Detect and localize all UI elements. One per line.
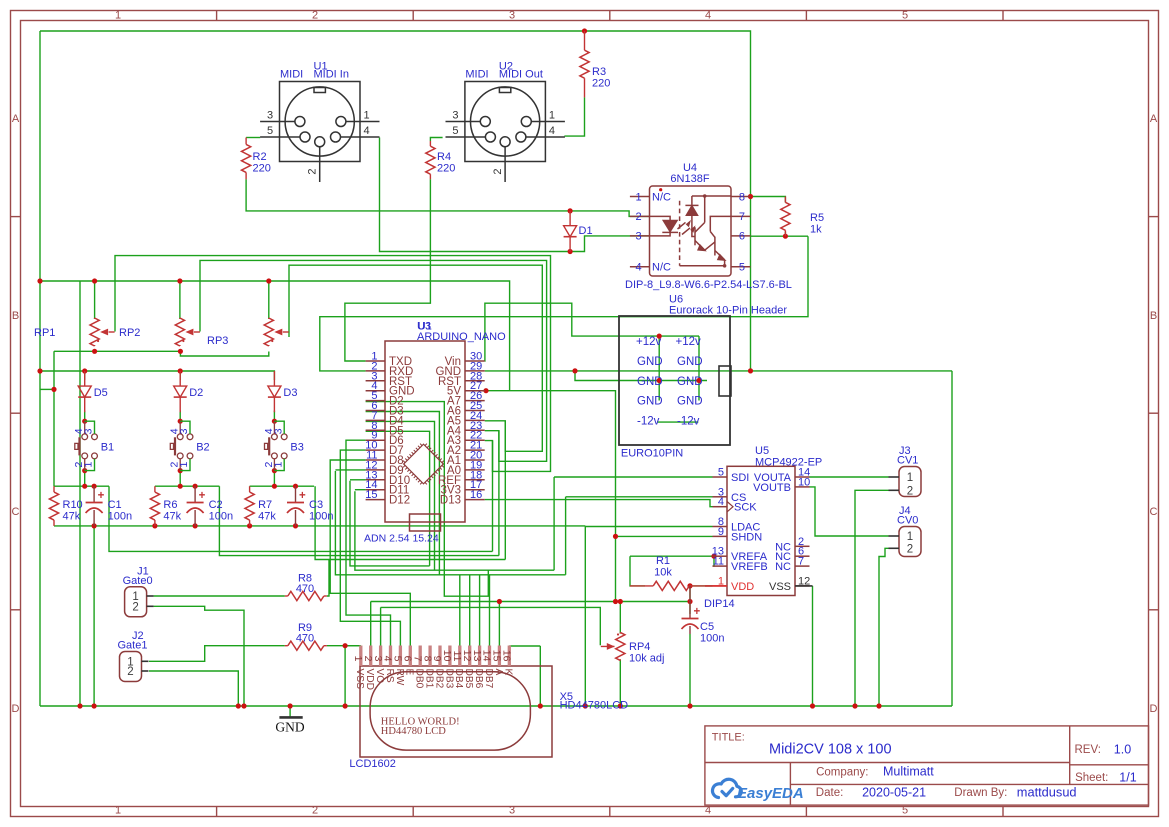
svg-text:MCP4922-EP: MCP4922-EP	[755, 457, 822, 469]
junction	[193, 523, 198, 528]
junction	[783, 234, 788, 239]
button B2	[170, 421, 193, 470]
svg-text:4: 4	[635, 262, 641, 274]
svg-text:Multimatt: Multimatt	[883, 764, 934, 778]
svg-text:B: B	[12, 310, 19, 322]
svg-text:47k: 47k	[258, 511, 276, 523]
junction	[247, 523, 252, 528]
resistor R9 470	[285, 645, 288, 647]
svg-text:11: 11	[713, 556, 724, 568]
junction	[51, 387, 56, 392]
button B1	[75, 421, 98, 470]
wire	[344, 646, 346, 706]
wire	[370, 602, 372, 646]
svg-text:8: 8	[739, 191, 745, 203]
junction	[497, 599, 502, 604]
svg-text:1: 1	[549, 110, 555, 122]
wire	[380, 138, 571, 252]
svg-text:Gate0: Gate0	[123, 575, 153, 587]
wire	[498, 602, 500, 646]
svg-text:Company:: Company:	[816, 766, 868, 778]
junction	[37, 368, 42, 373]
wire	[430, 138, 442, 142]
svg-text:ADN 2.54 15.24: ADN 2.54 15.24	[364, 533, 439, 545]
svg-text:C1: C1	[108, 499, 122, 511]
wire	[289, 706, 291, 717]
junction	[178, 368, 183, 373]
svg-text:C: C	[1150, 506, 1158, 518]
svg-text:7: 7	[739, 211, 745, 223]
wire	[554, 476, 712, 478]
wire	[335, 469, 365, 471]
svg-text:+: +	[694, 606, 701, 618]
svg-text:4: 4	[363, 125, 369, 137]
wire	[350, 481, 430, 566]
svg-text:NC: NC	[775, 561, 791, 573]
wire	[751, 235, 809, 237]
svg-text:5: 5	[718, 467, 724, 479]
svg-text:EURO10PIN: EURO10PIN	[621, 447, 683, 459]
svg-text:A: A	[1150, 113, 1158, 125]
svg-text:ARDUINO_NANO: ARDUINO_NANO	[417, 331, 506, 343]
junction	[572, 368, 577, 373]
wire	[658, 345, 660, 401]
svg-text:-12v: -12v	[677, 416, 700, 428]
potentiometer RP4 10k adj	[619, 632, 621, 633]
ground symbol GND	[279, 716, 302, 719]
svg-text:2: 2	[312, 805, 318, 817]
wire	[380, 607, 382, 645]
svg-text:5: 5	[902, 10, 908, 22]
svg-text:VDD: VDD	[364, 669, 375, 691]
svg-text:C5: C5	[700, 621, 714, 633]
junction	[272, 484, 277, 489]
svg-text:DIP-8_L9.8-W6.6-P2.54-LS7.6-BL: DIP-8_L9.8-W6.6-P2.54-LS7.6-BL	[625, 279, 792, 291]
svg-text:9: 9	[718, 526, 724, 538]
svg-text:VSS: VSS	[769, 581, 791, 593]
IC U5 MCP4922-EP	[713, 466, 810, 595]
wire	[459, 575, 461, 646]
svg-text:TITLE:: TITLE:	[712, 732, 745, 744]
wire	[154, 606, 244, 706]
svg-text:B2: B2	[196, 442, 209, 454]
wire	[566, 496, 713, 498]
wire	[619, 659, 621, 706]
svg-text:SHDN: SHDN	[731, 531, 762, 543]
wire	[479, 575, 481, 646]
wire	[485, 391, 616, 602]
svg-text:3: 3	[509, 10, 515, 22]
connector U6 Eurorack 10-Pin Header	[619, 316, 731, 445]
wire	[570, 211, 649, 217]
wire	[40, 281, 510, 391]
svg-text:1: 1	[115, 10, 121, 22]
svg-text:4: 4	[718, 496, 724, 508]
junction	[687, 703, 692, 708]
svg-text:R4: R4	[437, 151, 451, 163]
wire	[340, 450, 400, 645]
svg-text:DIP14: DIP14	[704, 598, 735, 610]
button B3	[265, 421, 288, 470]
wire	[585, 526, 712, 528]
svg-text:2: 2	[127, 666, 133, 678]
svg-text:10: 10	[798, 476, 810, 488]
svg-text:10k: 10k	[654, 567, 672, 579]
wire	[355, 491, 554, 570]
svg-text:1: 1	[635, 191, 641, 203]
svg-text:+: +	[199, 490, 206, 502]
wire	[273, 411, 275, 422]
resistor R7 47k	[249, 486, 251, 492]
svg-text:1: 1	[83, 462, 95, 468]
svg-text:DB2: DB2	[433, 669, 444, 689]
MIDI connector U1 MIDI In	[260, 82, 379, 183]
wire	[630, 556, 645, 586]
svg-text:CV0: CV0	[897, 515, 918, 527]
svg-text:+12v: +12v	[636, 336, 662, 348]
svg-text:DB5: DB5	[463, 669, 474, 689]
diode D3	[273, 371, 275, 386]
capacitor C3 100n	[295, 486, 297, 502]
svg-text:C3: C3	[309, 499, 323, 511]
IC U3 ARDUINO_NANO	[366, 341, 485, 531]
svg-text:1: 1	[363, 110, 369, 122]
svg-text:MIDI: MIDI	[280, 69, 303, 81]
svg-text:4: 4	[705, 805, 711, 817]
svg-text:Gate1: Gate1	[118, 640, 148, 652]
wire	[810, 487, 889, 536]
svg-text:220: 220	[592, 78, 610, 90]
svg-text:2: 2	[132, 601, 138, 613]
svg-text:5: 5	[452, 125, 458, 137]
wire	[84, 411, 86, 422]
MIDI connector U2 MIDI Out	[446, 82, 565, 183]
svg-text:Date:: Date:	[816, 787, 844, 799]
junction	[77, 703, 82, 708]
wire	[93, 526, 95, 706]
svg-text:7: 7	[798, 556, 804, 568]
svg-text:220: 220	[437, 163, 455, 175]
wire	[688, 585, 713, 587]
resistor R2 220	[245, 138, 247, 145]
svg-text:47k: 47k	[63, 511, 81, 523]
wire	[179, 281, 181, 319]
junction	[748, 368, 753, 373]
junction	[582, 28, 587, 33]
svg-text:16: 16	[470, 489, 482, 501]
svg-text:EasyEDA: EasyEDA	[737, 785, 804, 802]
wire	[713, 556, 715, 566]
junction	[568, 249, 573, 254]
wire	[40, 705, 952, 707]
svg-text:MIDI Out: MIDI Out	[499, 69, 543, 81]
resistor R6 47k	[154, 486, 156, 492]
junction	[748, 194, 753, 199]
svg-text:R3: R3	[592, 66, 606, 78]
junction	[92, 523, 97, 528]
svg-text:HD44780LCD: HD44780LCD	[560, 700, 629, 712]
wire	[366, 421, 435, 570]
wire	[504, 421, 506, 560]
svg-text:GND: GND	[637, 396, 663, 408]
junction	[687, 583, 692, 588]
connector J3 CV1	[899, 467, 921, 497]
svg-text:3: 3	[267, 110, 273, 122]
wire	[53, 351, 55, 486]
svg-text:Midi2CV 108 x 100: Midi2CV 108 x 100	[769, 742, 892, 758]
svg-text:VREFB: VREFB	[731, 561, 768, 573]
junction	[82, 419, 87, 424]
wire	[575, 371, 707, 381]
svg-text:+: +	[299, 490, 306, 502]
svg-text:C2: C2	[209, 499, 223, 511]
svg-text:DB1: DB1	[424, 669, 435, 689]
junction	[152, 523, 157, 528]
svg-text:3: 3	[83, 428, 95, 434]
wire	[469, 575, 471, 646]
svg-text:4: 4	[549, 125, 555, 137]
svg-text:1: 1	[272, 462, 284, 468]
wire	[246, 137, 260, 139]
junction	[343, 643, 348, 648]
wire	[179, 411, 181, 422]
wire	[619, 602, 621, 634]
svg-text:DB0: DB0	[414, 669, 425, 689]
junction	[618, 599, 623, 604]
diode D1	[569, 211, 571, 226]
svg-text:2: 2	[312, 10, 318, 22]
wire	[584, 526, 586, 706]
wire	[39, 31, 41, 706]
junction	[583, 703, 588, 708]
svg-text:1: 1	[115, 805, 121, 817]
wire	[485, 370, 952, 372]
junction	[82, 484, 87, 489]
svg-text:100n: 100n	[700, 633, 724, 645]
wire	[40, 388, 54, 390]
svg-text:LCD1602: LCD1602	[349, 758, 395, 770]
potentiometer RP3	[179, 318, 181, 319]
junction	[696, 378, 701, 383]
wire	[54, 485, 109, 487]
wire	[698, 345, 700, 401]
wire	[149, 671, 238, 706]
resistor R4 220	[429, 141, 431, 146]
svg-text:RP3: RP3	[207, 335, 228, 347]
svg-text:A: A	[12, 113, 20, 125]
junction	[82, 468, 87, 473]
svg-text:1.0: 1.0	[1114, 743, 1131, 757]
wire	[268, 281, 270, 319]
EasyEDA logo	[712, 779, 741, 797]
wire	[315, 486, 505, 559]
wire	[345, 179, 431, 361]
svg-text:RP4: RP4	[629, 641, 650, 653]
svg-text:R2: R2	[253, 151, 267, 163]
wire	[200, 260, 547, 461]
svg-text:-12v: -12v	[637, 416, 660, 428]
wire	[564, 97, 584, 136]
wire	[149, 646, 285, 662]
LCD module X5 HD44780LCD	[360, 666, 552, 757]
wire	[879, 548, 889, 706]
wire	[179, 471, 181, 487]
svg-text:D: D	[12, 703, 20, 715]
wire	[565, 497, 567, 575]
junction	[483, 388, 488, 393]
svg-text:B3: B3	[290, 442, 303, 454]
svg-text:CV1: CV1	[897, 455, 918, 467]
wire	[810, 476, 889, 478]
junction	[293, 523, 298, 528]
svg-text:K: K	[503, 669, 514, 676]
diode D2	[179, 371, 181, 386]
svg-text:2: 2	[907, 543, 913, 555]
svg-text:3: 3	[635, 231, 641, 243]
svg-text:VO: VO	[374, 669, 385, 684]
capacitor C5 100n	[689, 586, 691, 619]
op-amp U4 6N138F optocoupler	[630, 186, 751, 276]
junction	[613, 599, 618, 604]
wire	[155, 485, 220, 487]
svg-text:470: 470	[296, 583, 314, 595]
svg-text:D1: D1	[579, 225, 593, 237]
svg-text:Eurorack 10-Pin Header: Eurorack 10-Pin Header	[669, 305, 787, 317]
resistor R3 220	[584, 31, 586, 50]
svg-text:GND: GND	[637, 376, 663, 388]
wire	[381, 607, 601, 645]
junction	[687, 599, 692, 604]
svg-text:RW: RW	[394, 669, 405, 686]
wire	[84, 371, 86, 380]
junction	[178, 419, 183, 424]
wire	[219, 486, 499, 555]
svg-text:100n: 100n	[309, 511, 333, 523]
junction	[272, 468, 277, 473]
svg-text:DB6: DB6	[473, 669, 484, 689]
junction	[852, 703, 857, 708]
svg-text:HD44780 LCD: HD44780 LCD	[381, 726, 446, 737]
svg-text:3: 3	[178, 428, 190, 434]
junction	[657, 378, 662, 383]
junction	[177, 278, 182, 283]
svg-text:R6: R6	[163, 499, 177, 511]
wire	[54, 350, 180, 352]
wire	[492, 441, 494, 552]
svg-text:SCK: SCK	[734, 502, 757, 514]
svg-text:RP1: RP1	[34, 327, 55, 339]
svg-text:REV:: REV:	[1075, 744, 1101, 756]
svg-text:A: A	[493, 669, 504, 676]
wire	[320, 236, 808, 371]
svg-text:N/C: N/C	[652, 192, 671, 204]
junction	[236, 703, 241, 708]
wire	[115, 256, 551, 472]
wire	[345, 645, 361, 647]
junction	[82, 368, 87, 373]
junction	[272, 419, 277, 424]
svg-text:D5: D5	[94, 387, 108, 399]
junction	[92, 484, 97, 489]
junction	[293, 484, 298, 489]
wire	[509, 645, 540, 647]
svg-text:470: 470	[296, 633, 314, 645]
wire	[951, 371, 953, 706]
capacitor C1 100n	[93, 486, 95, 502]
svg-text:16: 16	[501, 650, 513, 662]
svg-text:2: 2	[907, 485, 913, 497]
junction	[810, 703, 815, 708]
junction	[343, 703, 348, 708]
wire	[751, 197, 786, 203]
svg-text:Sheet:: Sheet:	[1075, 772, 1108, 784]
junction	[178, 484, 183, 489]
junction	[657, 334, 662, 339]
svg-text:1k: 1k	[810, 224, 822, 236]
wire	[366, 431, 430, 566]
wire	[335, 471, 565, 575]
wire	[630, 555, 713, 557]
wire	[327, 560, 329, 597]
svg-text:2: 2	[307, 168, 319, 174]
connector J4 CV0	[899, 527, 921, 557]
svg-text:D2: D2	[189, 387, 203, 399]
svg-text:1: 1	[907, 531, 913, 543]
svg-text:D: D	[1150, 703, 1158, 715]
svg-text:1: 1	[178, 462, 190, 468]
svg-text:6N138F: 6N138F	[670, 173, 709, 185]
wire	[273, 471, 275, 487]
wire	[154, 595, 285, 597]
svg-text:100n: 100n	[108, 511, 132, 523]
svg-text:2: 2	[635, 211, 641, 223]
wire	[498, 431, 500, 556]
svg-text:4: 4	[705, 10, 711, 22]
svg-text:DB4: DB4	[453, 669, 464, 689]
wire	[784, 232, 786, 237]
svg-text:D3: D3	[283, 387, 297, 399]
wire	[40, 31, 751, 371]
junction	[37, 278, 42, 283]
wire	[327, 645, 360, 647]
svg-text:R1: R1	[656, 555, 670, 567]
svg-text:3: 3	[452, 110, 458, 122]
junction	[568, 208, 573, 213]
wire	[109, 486, 493, 551]
svg-text:VSS: VSS	[354, 669, 365, 690]
wire	[54, 525, 585, 527]
capacitor C2 100n	[194, 486, 196, 502]
svg-text:VDD: VDD	[731, 581, 754, 593]
svg-text:47k: 47k	[163, 511, 181, 523]
connector J1 Gate0	[125, 587, 147, 617]
wire	[346, 440, 391, 645]
junction	[613, 534, 618, 539]
junction	[92, 278, 97, 283]
svg-text:R7: R7	[258, 499, 272, 511]
junction	[876, 703, 881, 708]
wire	[366, 402, 489, 597]
connector J2 Gate1	[120, 652, 142, 682]
wire	[330, 460, 410, 646]
wire	[250, 485, 315, 487]
svg-text:GND: GND	[275, 720, 304, 735]
svg-text:6: 6	[739, 231, 745, 243]
junction	[178, 468, 183, 473]
svg-text:DB7: DB7	[483, 669, 494, 689]
wire	[94, 281, 96, 319]
svg-text:+12v: +12v	[676, 336, 702, 348]
